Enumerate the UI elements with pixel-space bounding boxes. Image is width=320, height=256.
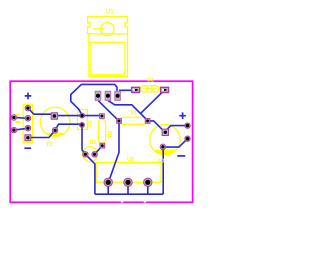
capacitor C2 pad 2 [80, 122, 85, 127]
connector J2 outline [23, 104, 32, 142]
wire pad B to C3 negative [163, 139, 188, 147]
wire U1 pad1 to R1 left [98, 100, 119, 121]
wire J1.1 to J2.2 [14, 117, 28, 120]
diode D2 outline [141, 86, 159, 92]
resistor R1 outline [120, 117, 147, 124]
wire pad B (output -) [185, 136, 190, 141]
connector J2 pad 1 [25, 105, 31, 111]
U1 tab hole circle [101, 22, 114, 35]
svg-text:U2: U2 [127, 157, 134, 163]
wire C1 negative to J2.4 [28, 130, 55, 137]
regulator U2 pad 2 [124, 178, 132, 186]
diode D2 anode pad [132, 87, 140, 92]
wire U2 pad2 to bus [127, 182, 129, 194]
capacitor C3 positive pad (square) [162, 129, 168, 135]
capacitor C3 negative pad [160, 144, 166, 150]
wire D2 cathode to node on R1 net [140, 90, 164, 114]
resistor R2 pad 2 [100, 143, 105, 148]
svg-text:C2: C2 [88, 120, 94, 127]
svg-text:U1: U1 [106, 9, 114, 15]
wire U1 pad2 to R1 right [108, 100, 148, 120]
minus mark left [24, 147, 31, 149]
capacitor C1 outline [40, 107, 70, 137]
minus mark right [177, 155, 185, 157]
resistor R2 outline [98, 119, 105, 143]
capacitor C2 outline [78, 109, 88, 129]
U1 body inner rectangle [91, 42, 125, 74]
wire C3 negative to ground bus [162, 147, 164, 194]
svg-text:R2: R2 [108, 131, 114, 138]
capacitor C1 negative pad [52, 128, 58, 134]
resistor R1 left pad [117, 119, 122, 124]
svg-text:C3: C3 [158, 157, 165, 163]
board edge gap 2 [144, 200, 146, 203]
wire D1 anode to ground bus [85, 154, 95, 194]
U1 tab outline [88, 17, 128, 34]
wire C2.2 to D1 anode [82, 125, 85, 154]
wire J1.2 to J2.3 [14, 128, 28, 130]
connector J2 pad 4 (square) [25, 135, 31, 141]
wire C1 positive to C2.1 to R2.1 [54, 115, 102, 117]
wire pad A to C3 positive [167, 126, 188, 130]
plus mark right [179, 112, 186, 119]
wire J2.1 to C1 positive [28, 108, 54, 114]
capacitor C1 positive pad (square) [51, 113, 57, 119]
ground bus wire [95, 193, 163, 195]
wire U1 pad3 elbow to C2.1 [71, 84, 117, 115]
svg-text:D2: D2 [147, 77, 154, 83]
svg-text:D1: D1 [89, 140, 96, 146]
plus mark left [25, 93, 32, 100]
LED D1 cathode pad [92, 152, 97, 157]
board edge gap 1 [121, 200, 123, 203]
wire pad A (output +) [185, 123, 190, 128]
U1 pin-1 arrow [93, 28, 102, 30]
resistor R1 right pad [145, 119, 150, 124]
diode D2 symbol [143, 88, 157, 90]
wire R1 left to U2 pad1 [108, 121, 119, 182]
connector J2 pad 2 [25, 116, 31, 122]
wire C1 negative to C2.2 [55, 124, 82, 130]
regulator U2 pad 1 [104, 178, 112, 186]
connector J1 pad 2 [11, 127, 17, 133]
regulator U2 pad 3 [144, 178, 152, 186]
regulator U1 ghost outline (TO-220 package above board) [88, 17, 128, 77]
connector J1 label bars [16, 114, 20, 116]
connector J1 pad 1 [11, 115, 17, 121]
capacitor C2 pad 1 [80, 113, 85, 118]
U1 body outer rectangle [89, 34, 128, 77]
wire U2 pad3 to bus [147, 182, 149, 194]
regulator U1 pad 1 [95, 91, 101, 100]
regulator U2 outline [96, 162, 161, 182]
wire U1 pad3 to D2 anode [119, 89, 136, 91]
regulator U1 pad 3 [115, 91, 121, 100]
LED D1 anode pad [83, 152, 88, 157]
wire R1 right to C3 positive [148, 121, 166, 132]
resistor R2 pad 1 [100, 114, 105, 119]
svg-text:C1: C1 [46, 140, 53, 146]
diode D2 cathode pad [161, 87, 169, 92]
capacitor C3 outline [150, 125, 180, 155]
LED D1 outline [83, 147, 98, 162]
wire D1 cathode to R2.2 [95, 146, 103, 155]
connector J2 pad 3 [25, 125, 31, 131]
wire U2 pad1 to bus [107, 182, 109, 194]
board edge (magenta border) [10, 81, 192, 202]
svg-text:R1: R1 [130, 111, 137, 117]
regulator U1 pad 2 [105, 91, 111, 100]
